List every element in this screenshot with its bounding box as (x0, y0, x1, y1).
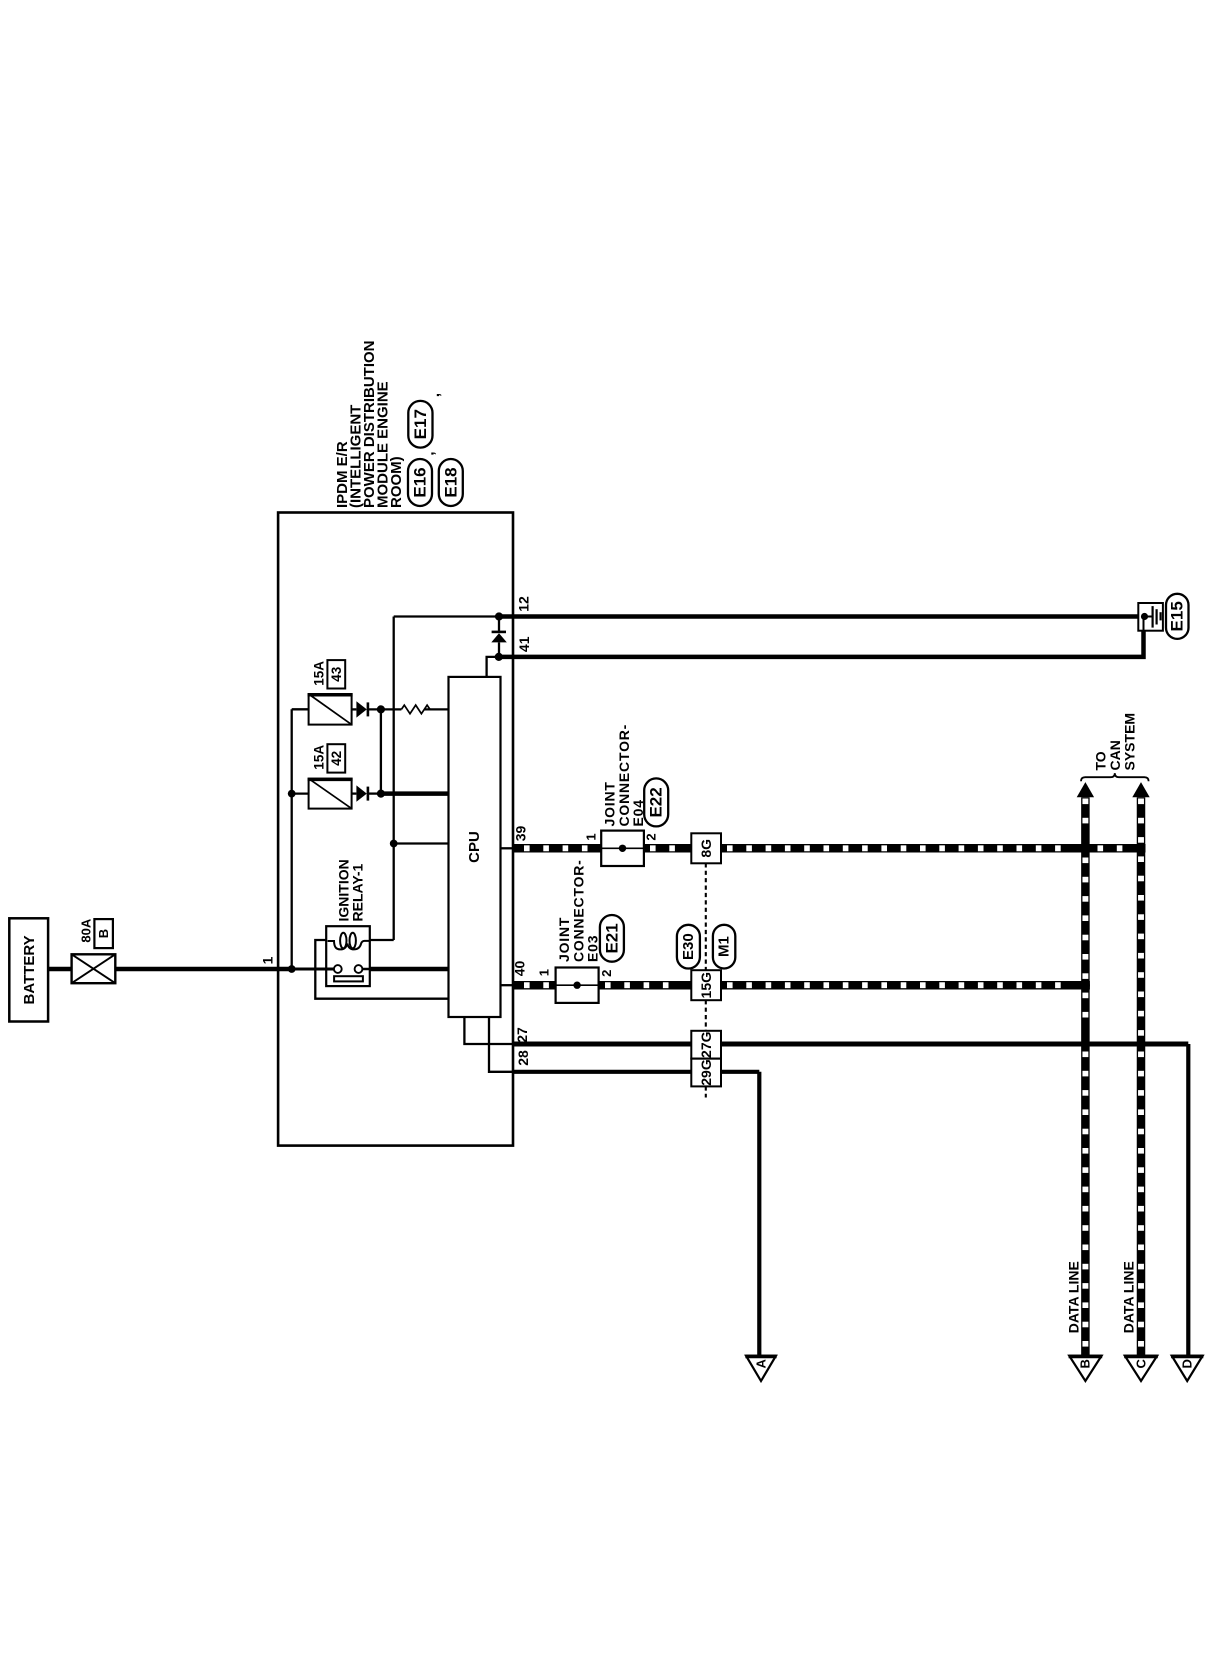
svg-text:E21: E21 (602, 923, 621, 953)
svg-text:42: 42 (329, 751, 344, 766)
svg-text:15G: 15G (698, 972, 714, 999)
svg-text:2: 2 (599, 970, 614, 977)
svg-text:,: , (426, 393, 443, 397)
svg-text:,: , (421, 451, 438, 455)
svg-text:E22: E22 (647, 787, 666, 817)
svg-text:D: D (1180, 1359, 1195, 1368)
svg-text:39: 39 (513, 826, 529, 842)
svg-text:15A: 15A (312, 745, 327, 770)
svg-text:12: 12 (515, 596, 531, 612)
svg-text:DATA LINE: DATA LINE (1065, 1261, 1081, 1333)
svg-text:1: 1 (537, 969, 552, 976)
svg-text:M1: M1 (716, 936, 733, 957)
svg-text:E16: E16 (411, 467, 430, 497)
svg-text:ROOM): ROOM) (388, 456, 405, 508)
svg-text:RELAY-1: RELAY-1 (349, 863, 365, 921)
svg-text:E30: E30 (680, 933, 697, 960)
svg-text:E18: E18 (441, 467, 460, 497)
svg-text:27: 27 (514, 1027, 530, 1043)
svg-text:A: A (753, 1358, 768, 1368)
svg-text:2: 2 (644, 833, 659, 840)
svg-text:B: B (1078, 1359, 1093, 1368)
svg-text:BATTERY: BATTERY (21, 935, 38, 1004)
svg-text:27G: 27G (698, 1031, 714, 1058)
svg-text:1: 1 (584, 833, 599, 840)
svg-text:43: 43 (329, 666, 344, 682)
svg-text:1: 1 (259, 956, 275, 964)
svg-text:B: B (96, 929, 111, 938)
svg-text:29G: 29G (698, 1059, 714, 1086)
svg-text:8G: 8G (698, 839, 714, 858)
svg-text:C: C (1133, 1358, 1148, 1368)
svg-text:41: 41 (516, 636, 532, 652)
svg-text:E15: E15 (1168, 601, 1187, 631)
svg-text:28: 28 (515, 1050, 531, 1066)
svg-text:CPU: CPU (466, 831, 483, 863)
svg-text:80A: 80A (79, 918, 94, 942)
svg-text:15A: 15A (312, 661, 327, 686)
svg-text:40: 40 (512, 961, 528, 977)
svg-text:E17: E17 (411, 409, 430, 439)
svg-text:DATA LINE: DATA LINE (1121, 1261, 1137, 1333)
svg-text:SYSTEM: SYSTEM (1122, 713, 1138, 771)
svg-text:E03: E03 (584, 935, 600, 962)
